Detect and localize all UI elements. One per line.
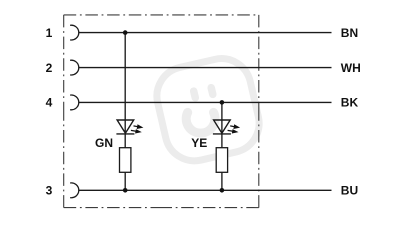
svg-text:BK: BK [341,96,359,110]
svg-text:4: 4 [46,96,53,110]
svg-text:3: 3 [46,184,53,198]
svg-text:BN: BN [341,26,358,40]
svg-text:YE: YE [191,136,207,150]
svg-text:BU: BU [341,184,358,198]
svg-text:WH: WH [341,61,361,75]
svg-text:1: 1 [46,26,53,40]
svg-text:2: 2 [46,61,53,75]
svg-text:GN: GN [95,136,113,150]
